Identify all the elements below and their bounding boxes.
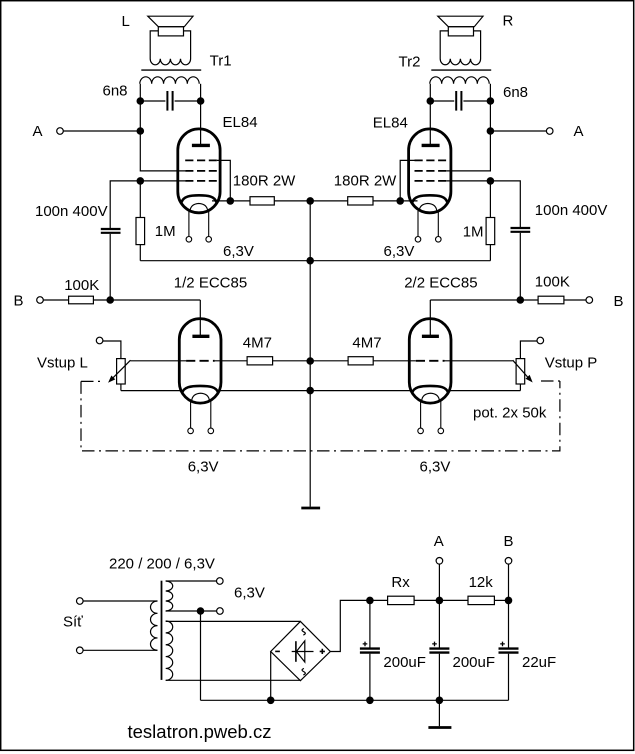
junction: B node right: [517, 296, 525, 304]
EL84 V1 grid g3: [185, 159, 217, 161]
ground symbol (PSU): [428, 700, 451, 727]
ECC85 V2b anode: [422, 335, 439, 338]
terminal B (supply): [505, 558, 512, 565]
capacitor C3 22uF: [499, 600, 519, 700]
potentiometer P1 (left 50k): [103, 341, 131, 391]
tube ECC85 V2b envelope: [409, 319, 451, 404]
wire: bridge plus to B+ line: [330, 600, 370, 651]
ECC85 V2a anode: [192, 335, 209, 338]
svg-text:100n 400V: 100n 400V: [35, 203, 108, 220]
svg-text:L: L: [122, 13, 130, 30]
ECC85 V2a heater pins: [188, 401, 214, 434]
ECC85 V2a grid: [186, 360, 215, 362]
junction: ground return on center rail: [306, 257, 314, 265]
wire: V2b grid line right: [445, 360, 513, 362]
svg-text:Vstup L: Vstup L: [37, 355, 88, 372]
junction: 4M7 on center rail: [306, 357, 314, 365]
junction: 6.3V to ground: [197, 607, 205, 615]
terminal A (right): [546, 128, 553, 135]
svg-text:6n8: 6n8: [103, 83, 128, 100]
junction: node B supply: [505, 597, 513, 605]
junction: V1 cathode node: [227, 197, 235, 205]
svg-text:teslatron.pweb.cz: teslatron.pweb.cz: [128, 721, 272, 742]
svg-text:A: A: [574, 123, 584, 140]
wire: cathode line to center: [220, 390, 311, 392]
wire: Tr2 primary left end to EL84 anode: [429, 84, 431, 144]
svg-text:4M7: 4M7: [352, 335, 381, 352]
terminal Vstup P: [537, 337, 544, 344]
wire: right B+ rail from Tr2 primary to EL84 g2: [446, 84, 490, 171]
ECC85 V2b heater: [422, 393, 440, 401]
EL84 V4 grid g1: [415, 180, 447, 182]
resistor 100K (left): [43, 296, 200, 304]
wire: 6.3V lead bottom: [166, 610, 217, 612]
svg-text:4M7: 4M7: [243, 335, 272, 352]
power transformer Tr3 core: [161, 581, 163, 680]
terminal B (right): [586, 297, 593, 304]
EL84 V4 cathode: [412, 195, 447, 202]
resistor 4M7 (left): [215, 357, 310, 365]
ground symbol (center): [301, 507, 320, 510]
capacitor C 6n8 (right): [430, 91, 490, 111]
EL84 V1 anode: [192, 144, 210, 147]
wire: 6.3V lead top: [166, 580, 217, 582]
junction: 6n8 right: [197, 97, 205, 105]
svg-text:100K: 100K: [64, 277, 99, 294]
capacitor 100n 400V (right): [511, 228, 531, 300]
capacitor C1 200uF: [360, 600, 380, 700]
svg-text:180R 2W: 180R 2W: [334, 173, 397, 190]
svg-text:A: A: [33, 123, 43, 140]
svg-text:6,3V: 6,3V: [384, 243, 415, 260]
transformer Tr2 primary winding: [430, 77, 489, 84]
wire: V4 g3 to cathode node: [400, 160, 414, 201]
terminal B (left): [37, 297, 44, 304]
wire: cathode/pot line (left): [121, 390, 181, 392]
junction: B node left: [106, 296, 114, 304]
resistor 12k: [439, 596, 508, 604]
svg-text:A: A: [434, 533, 444, 550]
junction: g1 node left: [137, 177, 145, 185]
wire: g3 to cathode node: [217, 160, 231, 201]
capacitor 100n 400V (left): [101, 229, 121, 300]
EL84 V4 anode: [422, 144, 440, 147]
dash-dot enclosure pot. 2x 50k: [81, 381, 560, 451]
resistor 180R 2W (left): [230, 197, 310, 205]
svg-text:6,3V: 6,3V: [223, 243, 254, 260]
resistor 4M7 (right): [310, 357, 416, 365]
svg-text:B: B: [14, 293, 24, 310]
junction: bridge minus on ground line: [267, 697, 275, 705]
ECC85 V2b cathode: [412, 386, 448, 393]
ECC85 V2b heater pins: [418, 401, 444, 434]
ECC85 V2b grid: [416, 360, 445, 362]
svg-text:100K: 100K: [535, 274, 570, 291]
svg-text:B: B: [504, 533, 514, 550]
wire: cathode/pot line (right): [310, 390, 410, 392]
tube ECC85 V2a envelope: [179, 319, 221, 404]
svg-text:B: B: [614, 293, 624, 310]
wire: V1 cathode out: [212, 200, 230, 202]
svg-text:R: R: [503, 13, 514, 30]
svg-text:6,3V: 6,3V: [188, 459, 219, 476]
EL84 V1 grid g2: [185, 170, 217, 172]
svg-text:100n 400V: 100n 400V: [535, 202, 608, 219]
svg-text:6,3V: 6,3V: [420, 459, 451, 476]
svg-text:Tr1: Tr1: [210, 53, 232, 70]
ECC85 V2a heater: [192, 393, 210, 401]
svg-text:1M: 1M: [463, 223, 484, 240]
terminal 6.3V bottom: [217, 608, 224, 615]
EL84 V1 grid g1: [185, 180, 217, 182]
power transformer Tr3 primary winding: [150, 601, 157, 650]
wire: g1 node to coupling cap (right): [446, 181, 520, 227]
EL84 V1 heater pins: [186, 211, 211, 242]
ECC85 V2a cathode: [182, 386, 218, 393]
EL84 V4 heater pins: [415, 211, 441, 242]
potentiometer P2 (right 50k): [513, 341, 538, 391]
svg-text:200uF: 200uF: [383, 654, 426, 671]
svg-text:180R 2W: 180R 2W: [233, 173, 296, 190]
wire: rail to A terminal: [490, 130, 546, 132]
wire: g1 node to coupling cap (left): [110, 181, 185, 229]
junction: V4 cathode node: [396, 197, 404, 205]
EL84 V4 grid g2: [415, 170, 447, 172]
EL84 V4 heater: [419, 203, 437, 211]
svg-text:220 / 200 / 6,3V: 220 / 200 / 6,3V: [109, 556, 215, 573]
junction: A on right rail: [487, 127, 495, 135]
svg-text:EL84: EL84: [223, 114, 258, 131]
capacitor C 6n8 (left): [140, 91, 200, 111]
svg-text:1M: 1M: [155, 223, 176, 240]
junction: node A supply: [436, 597, 444, 605]
svg-text:1/2 ECC85: 1/2 ECC85: [174, 275, 247, 292]
resistor 100K (right): [430, 296, 586, 304]
wire: bridge minus to ground: [270, 652, 272, 701]
junction: cathode line on center rail: [306, 387, 314, 395]
capacitor C2 200uF: [429, 600, 449, 700]
svg-text:Vstup P: Vstup P: [545, 355, 598, 372]
EL84 V1 cathode: [182, 195, 217, 202]
wire: V2b anode riser: [429, 300, 431, 336]
wire: A terminal drop: [438, 564, 440, 601]
power transformer Tr3 HV winding: [166, 621, 173, 680]
wire: left B+ rail from Tr1 primary to EL84 g2: [140, 84, 185, 171]
wire: mains lead bottom: [83, 649, 158, 651]
wire: Tr1 primary right end to EL84 anode: [200, 84, 202, 144]
EL84 V1 heater: [190, 203, 208, 211]
speaker R: [438, 16, 483, 65]
transformer Tr1 core: [141, 69, 201, 71]
wire: HV lead bottom to bridge: [166, 679, 301, 681]
svg-text:Rx: Rx: [391, 574, 410, 591]
transformer Tr2 core: [431, 69, 491, 71]
wire: V2a grid line left: [131, 360, 187, 362]
terminal Vstup L: [96, 337, 103, 344]
EL84 V4 grid g3: [415, 159, 447, 161]
svg-text:pot. 2x 50k: pot. 2x 50k: [473, 405, 547, 422]
wire: V2a anode riser: [199, 300, 201, 336]
junction: A on rail: [137, 127, 145, 135]
junction: 6n8 right-tube side: [427, 97, 435, 105]
tube EL84 V4 envelope: [409, 129, 451, 213]
junction: 6n8 rail side: [487, 97, 495, 105]
resistor Rx: [370, 596, 440, 604]
svg-text:200uF: 200uF: [453, 654, 496, 671]
wire: V4 cathode out: [400, 200, 417, 202]
svg-text:2/2 ECC85: 2/2 ECC85: [404, 275, 477, 292]
wire: A to left rail: [63, 130, 140, 132]
wire: center ground rail: [309, 201, 311, 507]
wire: 1M ground return line: [140, 260, 490, 262]
terminal A (left): [57, 128, 64, 135]
junction: 6n8 left: [137, 97, 145, 105]
wire: 6.3V winding drop to ground line: [200, 611, 202, 700]
speaker L: [148, 16, 193, 65]
svg-text:6n8: 6n8: [503, 84, 528, 101]
wire: HV lead top to bridge: [166, 620, 301, 622]
junction: C2 on ground line: [436, 697, 444, 705]
power transformer Tr3 6.3V winding: [166, 581, 173, 611]
junction: g1 node right: [487, 177, 495, 185]
svg-text:22uF: 22uF: [522, 654, 556, 671]
terminal mains top: [77, 598, 84, 605]
transformer Tr1 primary winding: [140, 77, 199, 84]
terminal mains bottom: [77, 647, 84, 654]
wire: mains lead top: [83, 600, 158, 602]
svg-text:12k: 12k: [469, 574, 494, 591]
terminal 6.3V top: [217, 578, 224, 585]
svg-text:EL84: EL84: [373, 115, 408, 132]
junction: B+ at C1: [366, 597, 374, 605]
junction: center cathode node: [306, 197, 314, 205]
svg-text:Síť: Síť: [63, 614, 83, 631]
svg-text:6,3V: 6,3V: [234, 585, 265, 602]
resistor 1M (right): [486, 181, 495, 261]
wire: B terminal drop: [508, 564, 510, 601]
resistor 180R 2W (right): [310, 197, 400, 205]
svg-text:Tr2: Tr2: [399, 54, 421, 71]
resistor 1M (left): [136, 181, 145, 261]
tube EL84 V1 envelope: [178, 129, 220, 213]
terminal A (supply): [436, 558, 443, 565]
wire: PSU ground line: [201, 699, 509, 701]
bridge rectifier D1: [271, 621, 331, 680]
junction: C1 on ground line: [366, 697, 374, 705]
